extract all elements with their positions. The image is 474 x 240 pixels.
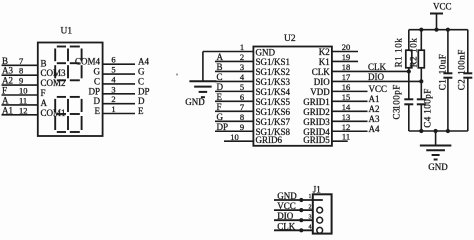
svg-text:CLK: CLK — [312, 67, 331, 77]
svg-text:GRID5: GRID5 — [303, 135, 330, 145]
U2 pin 6 (SG1/KS5) wire, net E — [215, 92, 291, 107]
svg-text:C4: C4 — [423, 116, 433, 128]
U1 pin 8 (COM3) wire, net A3 — [2, 66, 67, 79]
junction dot ground rail / C4 — [419, 129, 423, 133]
R2 value label 10k — [409, 38, 419, 68]
svg-text:COM3: COM3 — [41, 68, 67, 78]
svg-text:8: 8 — [19, 66, 23, 76]
U1 pin 6 (COM4) wire, net A4 — [75, 55, 150, 67]
svg-text:G: G — [217, 112, 224, 122]
svg-text:17: 17 — [342, 72, 351, 82]
svg-text:K1: K1 — [319, 57, 330, 67]
U1 pin 10 (F) wire, net F — [2, 86, 46, 99]
svg-text:COM1: COM1 — [41, 108, 66, 118]
junction dot DIO / R2 / C4 — [419, 79, 423, 83]
7-segment display U1 body — [38, 43, 103, 137]
U1 digit figure (bottom) — [55, 97, 81, 132]
svg-text:C3: C3 — [391, 108, 401, 120]
U2 pin 2 (SG1/KS1) wire, net A — [215, 52, 290, 67]
svg-text:GRID2: GRID2 — [303, 107, 330, 117]
svg-text:A1: A1 — [2, 105, 13, 115]
power symbol VCC — [430, 2, 452, 30]
C4 designator and value label 100pF — [423, 88, 433, 128]
C1 designator and value label 10uF — [438, 54, 448, 91]
svg-text:D: D — [217, 82, 224, 92]
U1 pin 7 (B) wire, net B — [2, 56, 47, 69]
svg-text:DIO: DIO — [368, 72, 384, 82]
U1 pin 1 (E) wire, net E — [95, 104, 145, 116]
svg-text:C: C — [217, 72, 223, 82]
C2 designator and value label 100nF — [457, 49, 467, 90]
U1 designator — [61, 27, 73, 37]
junction dot ground rail / C1 — [446, 129, 450, 133]
svg-text:13: 13 — [342, 112, 351, 122]
svg-text:CLK: CLK — [277, 221, 296, 231]
svg-text:SG1/KS6: SG1/KS6 — [256, 107, 291, 117]
svg-text:2: 2 — [309, 204, 312, 210]
svg-text:100pF: 100pF — [391, 84, 401, 110]
svg-text:A: A — [41, 98, 48, 108]
wire CLK net (U2 pin 18 to pull-up) — [312, 62, 410, 77]
svg-text:A: A — [217, 52, 224, 62]
svg-text:SG1/KS1: SG1/KS1 — [256, 57, 291, 67]
svg-text:2: 2 — [111, 94, 115, 104]
svg-text:C: C — [138, 76, 144, 86]
U2 pin 3 (SG1/KS2) wire, net B — [215, 62, 290, 77]
svg-text:8: 8 — [240, 112, 244, 122]
svg-text:11: 11 — [19, 95, 27, 105]
svg-text:G: G — [94, 67, 101, 77]
svg-text:14: 14 — [342, 102, 351, 112]
svg-text:A3: A3 — [2, 66, 13, 76]
svg-text:12: 12 — [19, 105, 28, 115]
svg-text:VCC: VCC — [369, 84, 388, 94]
U2 pin 16 (VDD) wire, net VCC — [310, 82, 387, 97]
U2 designator — [284, 34, 296, 44]
ground symbol GND (right) — [420, 131, 452, 172]
U2 pin 13 (GRID3) wire, net A3 — [303, 112, 380, 127]
IC U2 body — [253, 47, 332, 146]
svg-text:COM2: COM2 — [41, 78, 66, 88]
U1 pin 5 (G) wire, net G — [94, 65, 146, 77]
U2 pin 15 (GRID1) wire, net A1 — [303, 92, 379, 107]
stray mark (faint dot artifact) — [176, 73, 178, 75]
svg-text:1: 1 — [111, 104, 115, 114]
wire VCC rail (top) — [409, 29, 468, 31]
resistor R1 — [406, 30, 412, 100]
svg-text:SG1/KS3: SG1/KS3 — [256, 77, 291, 87]
connector J1 body — [313, 194, 332, 233]
svg-text:100nF: 100nF — [457, 49, 467, 75]
J1 pin 4 wire, net CLK — [274, 221, 323, 233]
svg-text:19: 19 — [342, 52, 351, 62]
svg-text:J1: J1 — [313, 185, 321, 195]
U2 pin 8 (SG1/KS7) wire, net G — [215, 112, 291, 127]
svg-text:F: F — [41, 88, 46, 98]
U2 pin 7 (SG1/KS6) wire, net F — [215, 102, 291, 117]
svg-text:E: E — [95, 106, 101, 116]
svg-text:C2: C2 — [457, 79, 467, 91]
svg-text:10: 10 — [230, 132, 239, 142]
wire DIO net (U2 pin 17 to pull-up) — [314, 72, 422, 87]
R1 value label 10k — [393, 38, 403, 68]
svg-text:1: 1 — [309, 194, 312, 200]
svg-text:3: 3 — [240, 62, 244, 72]
svg-text:C1: C1 — [438, 79, 448, 91]
J1 designator — [313, 185, 321, 195]
junction dot VCC rail / R2 — [419, 28, 423, 32]
svg-text:100pF: 100pF — [423, 88, 433, 114]
svg-text:2: 2 — [240, 52, 244, 62]
svg-text:F: F — [2, 86, 7, 96]
svg-text:F: F — [217, 102, 222, 112]
U2 pin 4 (SG1/KS3) wire, net C — [215, 72, 291, 87]
svg-text:SG1/KS5: SG1/KS5 — [256, 97, 291, 107]
svg-text:3: 3 — [309, 214, 312, 220]
svg-text:9: 9 — [19, 76, 23, 86]
svg-text:DP: DP — [88, 86, 100, 96]
svg-text:GRID6: GRID6 — [256, 135, 283, 145]
svg-text:D: D — [138, 96, 145, 106]
junction dot ground rail / ground stem — [434, 129, 438, 133]
U2 pin 9 (SG1/KS8) wire, net DP — [215, 122, 291, 137]
U2 pin 1 (GND) wire to ground — [203, 42, 276, 81]
U1 pin 4 (C) wire, net C — [94, 74, 144, 86]
resistor R2 — [418, 30, 424, 100]
svg-text:GND: GND — [185, 97, 205, 107]
svg-text:GND: GND — [428, 162, 448, 172]
junction dot VCC rail / VCC stem — [434, 28, 438, 32]
svg-text:VCC: VCC — [277, 201, 296, 211]
svg-text:4: 4 — [111, 74, 116, 84]
svg-text:A1: A1 — [369, 94, 380, 104]
svg-text:A2: A2 — [369, 104, 380, 114]
svg-text:G: G — [138, 67, 145, 77]
C3 designator and value label 100pF — [391, 84, 401, 119]
capacitor C2 — [463, 30, 472, 131]
U2 pin 12 (GRID4) wire, net A4 — [303, 122, 380, 137]
svg-text:GND: GND — [277, 191, 297, 201]
svg-text:A4: A4 — [138, 57, 149, 67]
svg-text:VDD: VDD — [310, 87, 330, 97]
wire ground rail (bottom) — [409, 130, 468, 132]
svg-text:DIO: DIO — [314, 77, 330, 87]
svg-text:U1: U1 — [61, 27, 73, 37]
svg-text:R1 10k: R1 10k — [393, 38, 403, 68]
svg-text:VCC: VCC — [433, 2, 452, 12]
svg-text:5: 5 — [240, 82, 244, 92]
U1 pin 9 (COM2) wire, net A2 — [2, 76, 66, 89]
svg-text:E: E — [217, 92, 223, 102]
svg-text:DP: DP — [138, 86, 150, 96]
svg-text:A2: A2 — [2, 76, 13, 86]
U2 pin 20 (K2) wire — [319, 42, 358, 57]
U1 digit figure (top) — [55, 47, 81, 81]
svg-text:16: 16 — [342, 82, 351, 92]
U2 pin 5 (SG1/KS4) wire, net D — [215, 82, 291, 97]
svg-text:5: 5 — [111, 65, 115, 75]
svg-text:A4: A4 — [369, 124, 380, 134]
J1 pin 3 wire, net DIO — [274, 211, 323, 223]
svg-text:U2: U2 — [284, 34, 296, 44]
capacitor C3 — [404, 99, 413, 131]
svg-text:7: 7 — [240, 102, 244, 112]
capacitor C4 — [417, 99, 426, 131]
svg-text:10uF: 10uF — [438, 54, 448, 75]
svg-text:20: 20 — [342, 42, 351, 52]
U1 pin 11 (A) wire, net A — [2, 95, 48, 108]
junction dot CLK / R1 / C3 — [407, 69, 411, 73]
U1 pin 2 (D) wire, net D — [94, 94, 146, 106]
svg-text:SG1/KS7: SG1/KS7 — [256, 117, 291, 127]
capacitor C1 — [443, 30, 452, 131]
svg-text:4: 4 — [309, 225, 312, 231]
svg-text:GND: GND — [256, 47, 276, 57]
svg-text:B: B — [41, 58, 47, 68]
svg-text:A: A — [2, 95, 9, 105]
svg-text:D: D — [94, 96, 101, 106]
svg-text:R2 10k: R2 10k — [409, 38, 419, 68]
svg-text:E: E — [138, 106, 144, 116]
J1 pin 1 wire, net GND — [274, 191, 323, 202]
U2 pin 10 (GRID6) wire — [224, 132, 282, 145]
U1 pin 3 (DP) wire, net DP — [88, 84, 149, 96]
svg-text:11: 11 — [342, 132, 350, 142]
U2 pin 11 (GRID5) wire — [303, 132, 350, 146]
svg-text:1: 1 — [240, 42, 244, 52]
J1 pin 2 wire, net VCC — [274, 201, 323, 213]
U1 pin 12 (COM1) wire, net A1 — [2, 105, 66, 118]
svg-text:SG1/KS4: SG1/KS4 — [256, 87, 291, 97]
ground symbol (left, at U2 pin 1) — [185, 81, 216, 107]
svg-text:6: 6 — [111, 55, 115, 65]
svg-text:15: 15 — [342, 92, 351, 102]
svg-text:B: B — [2, 56, 8, 66]
svg-text:6: 6 — [240, 92, 244, 102]
U2 pin 19 (K1) wire — [319, 52, 358, 67]
svg-text:18: 18 — [342, 62, 351, 72]
svg-text:K2: K2 — [319, 47, 330, 57]
svg-text:DP: DP — [217, 122, 229, 132]
svg-text:10: 10 — [19, 86, 28, 96]
svg-text:12: 12 — [342, 122, 351, 132]
svg-text:B: B — [217, 62, 223, 72]
svg-text:7: 7 — [19, 56, 23, 66]
svg-text:CLK: CLK — [368, 62, 387, 72]
svg-text:9: 9 — [240, 122, 244, 132]
svg-text:COM4: COM4 — [75, 57, 101, 67]
svg-text:A3: A3 — [369, 114, 380, 124]
svg-text:C: C — [94, 76, 100, 86]
svg-text:3: 3 — [111, 84, 115, 94]
svg-text:GRID1: GRID1 — [303, 97, 330, 107]
junction dot VCC rail / C1 — [446, 28, 450, 32]
svg-text:DIO: DIO — [277, 211, 293, 221]
svg-text:SG1/KS2: SG1/KS2 — [256, 67, 291, 77]
U2 pin 14 (GRID2) wire, net A2 — [303, 102, 379, 117]
svg-text:GRID3: GRID3 — [303, 117, 330, 127]
